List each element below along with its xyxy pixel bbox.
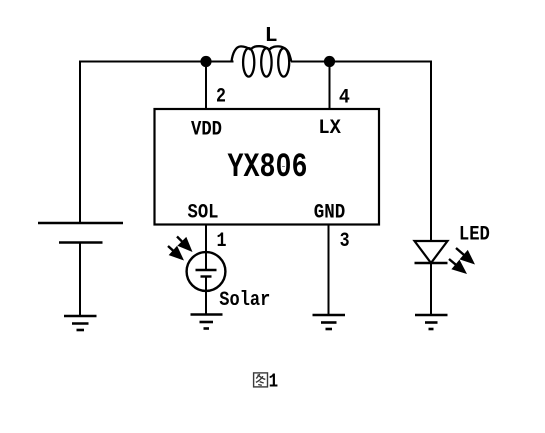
- wire left vertical battery branch: [79, 61, 81, 224]
- IC U1 YX806 body: [155, 109, 380, 225]
- wire pin 3 vertical to ground: [328, 224, 330, 315]
- solar light arrow lower: [168, 246, 184, 261]
- node junction dot right (LX node): [324, 56, 335, 67]
- wire top-left horizontal from battery branch to node VDD: [79, 61, 234, 63]
- wire pin 1 vertical to solar cell: [205, 224, 207, 253]
- caption figure character tu (图): [254, 373, 268, 387]
- battery BT1: [38, 223, 123, 243]
- wire top-right horizontal from node LX to LED branch: [291, 61, 432, 63]
- svg-text:LED: LED: [459, 224, 490, 247]
- wire battery to ground: [79, 243, 81, 317]
- LED D1: [415, 241, 448, 263]
- ground pin 3 branch: [313, 315, 346, 329]
- svg-text:1: 1: [269, 371, 279, 393]
- svg-text:SOL: SOL: [188, 202, 219, 225]
- wire right vertical LED branch: [430, 61, 432, 242]
- ground LED branch: [415, 315, 448, 329]
- svg-text:LX: LX: [318, 117, 341, 140]
- inductor L coil: [232, 46, 292, 76]
- wire LED cathode to ground: [430, 263, 432, 315]
- svg-text:Solar: Solar: [219, 289, 270, 312]
- ground solar branch: [191, 315, 223, 329]
- svg-text:VDD: VDD: [191, 119, 222, 142]
- wire pin 4 vertical: [329, 62, 331, 110]
- svg-text:2: 2: [216, 86, 226, 109]
- svg-text:GND: GND: [314, 202, 346, 225]
- svg-text:L: L: [265, 24, 278, 48]
- wire solar cell to ground: [205, 277, 207, 315]
- ground battery branch: [64, 316, 97, 330]
- node junction dot left (VDD node): [200, 56, 211, 67]
- LED light arrow lower: [449, 259, 467, 274]
- LED light arrow upper: [456, 248, 475, 265]
- svg-text:1: 1: [217, 230, 227, 253]
- svg-text:YX806: YX806: [228, 148, 308, 187]
- solar cell SOLAR: [187, 252, 226, 291]
- svg-text:4: 4: [339, 86, 350, 109]
- solar light arrow upper: [177, 237, 193, 253]
- wire pin 2 vertical: [205, 62, 207, 110]
- svg-text:3: 3: [340, 230, 350, 253]
